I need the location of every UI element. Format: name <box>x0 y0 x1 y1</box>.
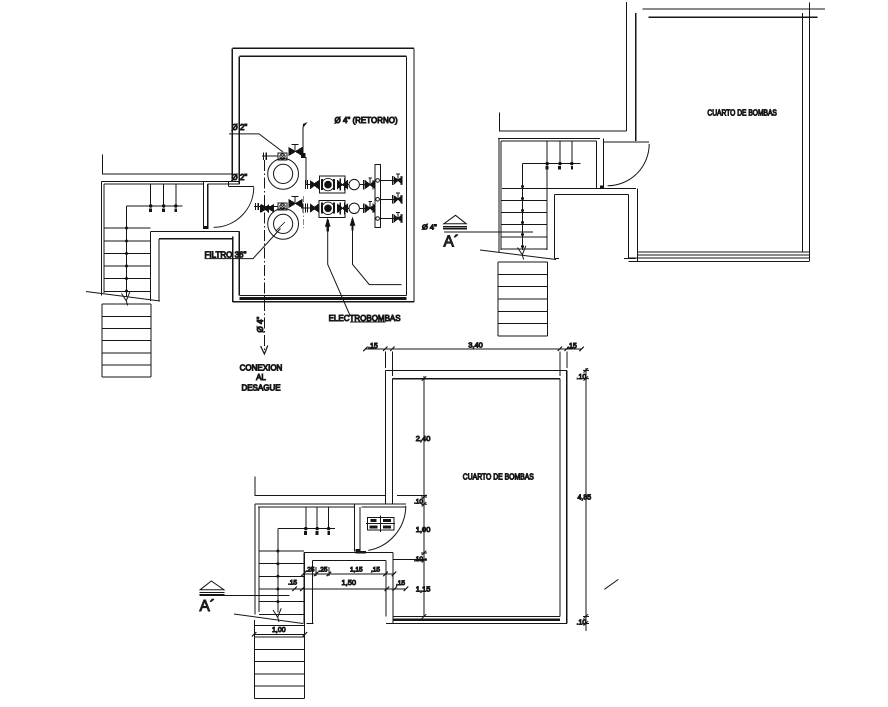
room bottom band B <box>629 252 809 261</box>
svg-text:.25: .25 <box>306 567 315 574</box>
stair right edge B <box>546 164 548 250</box>
left dim line <box>423 376 425 617</box>
break line C <box>234 614 303 624</box>
void box outer right <box>392 552 394 623</box>
stair void left stub <box>554 258 559 260</box>
baluster tiny labels B <box>545 166 573 170</box>
svg-text:Ø 4": Ø 4" <box>422 223 437 232</box>
walk dots C <box>276 550 279 604</box>
stair top wall inner right <box>208 183 240 185</box>
filter F1 left stub <box>262 155 278 157</box>
door B swing arc <box>608 144 650 186</box>
wall top outer <box>232 47 414 49</box>
baluster dots line <box>127 205 183 207</box>
pump PU1 box <box>319 176 345 193</box>
svg-text:1,15: 1,15 <box>416 585 431 594</box>
branch 1 valve <box>393 176 402 185</box>
filter F2 top box <box>278 203 287 210</box>
door A jamb foot <box>203 226 207 229</box>
svg-text:ELECTROBOMBAS: ELECTROBOMBAS <box>329 313 401 323</box>
left dim ticks <box>421 376 427 618</box>
right dim line <box>585 368 587 631</box>
svg-text:.10: .10 <box>577 619 587 626</box>
void box inner right <box>385 561 387 617</box>
svg-text:.15: .15 <box>567 343 577 350</box>
filter F1 inner <box>274 164 293 183</box>
P2 suction valves <box>303 203 319 212</box>
electro underline <box>350 321 386 323</box>
door A swing arc <box>214 187 254 227</box>
room top outer <box>385 369 566 371</box>
drain valve on stub <box>262 205 274 213</box>
svg-text:Ø 2": Ø 2" <box>232 173 248 182</box>
balusters B <box>547 141 572 164</box>
check valve CV1 <box>349 179 359 189</box>
svg-text:,15: ,15 <box>396 580 405 587</box>
stair treads upper flight <box>104 228 151 292</box>
dims row1 line <box>303 573 394 575</box>
door B leaf <box>603 141 649 143</box>
riser flag <box>303 123 306 127</box>
riser elbow blob <box>301 153 306 158</box>
drain arrowhead <box>261 346 268 355</box>
room east outer <box>566 370 568 623</box>
stair left wall inner <box>103 184 105 293</box>
wall west inner lower <box>238 232 240 296</box>
svg-text:CONEXION: CONEXION <box>240 363 283 372</box>
door B jamb right <box>602 139 604 189</box>
filter F2 top valve cluster <box>289 200 302 208</box>
stair void right stub <box>624 257 636 259</box>
svg-text:1,50: 1,50 <box>342 578 357 587</box>
stair top wall outer <box>102 181 240 183</box>
corridor wall tick <box>499 113 626 131</box>
pump PU2 out pipe <box>345 207 348 209</box>
CV1 to header pipe <box>360 184 375 186</box>
lower flight C treads <box>254 626 304 699</box>
svg-text:AL: AL <box>256 373 266 382</box>
stair void left wall <box>553 194 555 258</box>
section marker triangle <box>444 215 467 224</box>
stair left wall C outer <box>254 504 256 614</box>
baluster lines <box>151 184 176 206</box>
lower flight B right <box>547 262 549 336</box>
stair left wall outer <box>101 182 103 296</box>
left dim ext lines <box>393 496 427 560</box>
P1 suction valves <box>305 180 318 189</box>
dia2 top leader <box>229 134 283 152</box>
stair left wall outer <box>498 139 500 252</box>
drain valve mid <box>260 205 268 212</box>
header branch 2 <box>381 198 403 200</box>
stair top wall inner left <box>104 183 204 185</box>
riser pipe <box>302 127 304 158</box>
stair mid wall inner <box>158 239 160 301</box>
svg-text:.15: .15 <box>288 580 297 587</box>
wall right inner <box>406 56 408 295</box>
svg-text:.10: .10 <box>414 556 423 563</box>
svg-text:,15: ,15 <box>371 567 380 574</box>
walk line C <box>277 529 279 613</box>
svg-text:A´: A´ <box>200 598 216 615</box>
pump PU2 motor <box>322 202 348 214</box>
wall top inner <box>239 55 406 57</box>
filter F2 box circle <box>280 204 285 209</box>
P2 discharge valve <box>363 204 374 213</box>
svg-text:1,00: 1,00 <box>416 525 431 534</box>
row2 ticks <box>292 587 408 592</box>
top dim ticks <box>363 347 584 352</box>
F2 diag mark <box>276 222 285 231</box>
vestibule top wall lower right / leaf <box>362 506 406 508</box>
svg-text:3,40: 3,40 <box>468 340 483 349</box>
wall west below door inner <box>628 194 630 257</box>
door A leaf <box>228 185 254 187</box>
room bottom inner <box>393 616 560 618</box>
drain line dash-dot <box>263 160 265 353</box>
wall east inner <box>802 13 804 252</box>
header branch 3 <box>381 218 403 220</box>
top dim ext lines <box>385 352 566 377</box>
baluster dots C <box>304 527 330 530</box>
svg-text:CUARTO DE BOMBAS: CUARTO DE BOMBAS <box>707 109 777 118</box>
baluster tiny labels C <box>304 531 330 535</box>
balusters C <box>306 507 329 528</box>
wall bottom outer <box>232 301 414 303</box>
wall bottom thick band <box>239 297 406 300</box>
walk dots B <box>521 185 524 248</box>
row1 ticks <box>301 572 396 577</box>
stair left wall C inner <box>258 507 260 612</box>
A marker C underlines <box>200 592 225 594</box>
door A jamb outer <box>203 182 205 229</box>
room top inner <box>393 378 561 380</box>
lower flight right edge <box>150 304 152 377</box>
stray diagonal <box>604 579 618 589</box>
svg-text:CUARTO DE BOMBAS: CUARTO DE BOMBAS <box>463 472 534 481</box>
stair void top wall <box>554 193 628 195</box>
void box outer top <box>304 551 393 553</box>
wall west inner upper <box>238 56 240 183</box>
walk line B <box>522 164 524 250</box>
suction pipe P2 <box>301 207 319 209</box>
room west outer upper <box>384 370 386 504</box>
svg-text:1,00: 1,00 <box>272 627 286 634</box>
section marker underlines <box>443 227 467 229</box>
svg-text:4,85: 4,85 <box>578 495 592 502</box>
baluster dots <box>149 204 178 207</box>
svg-text:Ø 4": Ø 4" <box>256 317 265 333</box>
door C foot <box>356 549 360 552</box>
door A jamb inner <box>207 184 209 229</box>
baluster dots line B <box>523 163 581 165</box>
dims row2 line <box>287 588 406 590</box>
return header <box>375 164 380 227</box>
electro leader 1 <box>328 230 350 315</box>
walk arrowhead B <box>518 246 526 260</box>
svg-text:.10: .10 <box>414 498 423 505</box>
vestibule south wall outer <box>151 231 240 233</box>
pump PU1 motor <box>322 178 348 190</box>
door C jamb right <box>359 507 361 551</box>
door B jamb left <box>595 141 597 188</box>
centerline below junction <box>302 196 304 228</box>
top dim line <box>365 348 581 350</box>
check valve CV2 <box>349 203 359 213</box>
door C swing arc <box>368 506 406 551</box>
header branch 1 <box>381 179 403 181</box>
A prime marker C triangle <box>200 581 224 590</box>
right dim ticks <box>583 368 589 626</box>
corridor wall tick <box>102 154 232 174</box>
lower flight C right <box>303 624 305 698</box>
treads B upper <box>501 200 547 249</box>
lower flight C left <box>253 620 255 699</box>
wall top inner <box>649 16 818 18</box>
vestibule south line <box>502 187 636 189</box>
treads C upper <box>259 551 304 614</box>
pipe line P1 <box>306 184 320 186</box>
svg-text:.25: .25 <box>319 567 328 574</box>
pump PU1 out pipe <box>345 184 348 186</box>
lower flight treads <box>102 304 151 377</box>
filter F1 top box <box>278 153 287 160</box>
wall west outer upper <box>626 2 628 131</box>
wall west outer upper <box>231 48 233 181</box>
break line B <box>480 250 556 260</box>
filter F1 box circle <box>280 154 285 159</box>
pump PU2 box <box>319 201 345 218</box>
filter F1 stub flange <box>263 153 266 160</box>
stair top wall outer <box>498 138 600 140</box>
baluster dots B <box>546 162 574 165</box>
vestibule top wall lower left <box>258 506 354 508</box>
wall right outer <box>413 48 415 301</box>
filter F1 top valve cluster <box>289 148 302 156</box>
baluster tiny labels <box>149 208 177 212</box>
corridor wall tick C <box>255 477 386 496</box>
wall top outer <box>643 8 826 10</box>
section line C <box>200 595 290 597</box>
room bottom thick <box>393 618 560 621</box>
door C jamb left <box>353 504 355 551</box>
void box inner top <box>313 560 386 562</box>
filtro underline + leader <box>205 229 281 259</box>
void box bottom stub <box>307 622 314 624</box>
room bottom outer <box>386 623 567 625</box>
walk line dots <box>125 227 128 293</box>
svg-text:A´: A´ <box>444 234 460 251</box>
svg-text:FILTRO 36": FILTRO 36" <box>205 250 247 259</box>
wall west inner upper <box>635 13 637 141</box>
svg-text:2,40: 2,40 <box>416 434 431 443</box>
lower flight left edge <box>101 304 103 377</box>
svg-text:Ø 2": Ø 2" <box>232 123 248 132</box>
vestibule top wall upper <box>255 503 406 505</box>
bottom dim 1,00 <box>254 633 305 635</box>
lower flight B left <box>497 262 499 336</box>
door tag table <box>368 518 395 530</box>
baluster dots line C <box>278 528 335 530</box>
door A leaf start tick <box>227 182 229 187</box>
suction drop pipe P1 <box>303 158 306 185</box>
filter F2 inner <box>274 214 293 233</box>
threshold dark <box>356 551 366 553</box>
void box inner left <box>312 561 314 624</box>
wall west below door outer <box>637 188 639 261</box>
filter F1 body <box>268 159 299 190</box>
door B jamb foot <box>600 185 604 188</box>
svg-text:Ø 4" (RETORNO): Ø 4" (RETORNO) <box>335 116 398 125</box>
svg-text:.10: .10 <box>577 374 587 381</box>
filter F2 left stub <box>254 205 278 207</box>
stair walk line <box>126 206 128 297</box>
branch 3 valve <box>393 214 402 223</box>
svg-text:.15: .15 <box>368 343 378 350</box>
section line A-A <box>444 231 533 233</box>
vestibule south wall inner <box>159 238 233 240</box>
room east inner <box>559 379 561 617</box>
walk arrowhead C <box>273 608 281 622</box>
stair break line <box>86 292 160 302</box>
svg-text:1,15: 1,15 <box>350 567 363 574</box>
stair mid wall outer <box>150 232 152 301</box>
wall west outer lower <box>232 237 234 302</box>
room west inner upper <box>392 379 394 505</box>
wall east outer <box>809 3 811 262</box>
filter F2 body <box>268 209 299 240</box>
lower flight B treads <box>498 262 548 336</box>
P1 discharge valve <box>363 180 374 189</box>
stair left wall inner <box>500 141 502 250</box>
filter F2 stub flange <box>255 203 258 210</box>
stair top wall inner <box>501 140 596 142</box>
svg-text:DESAGUE: DESAGUE <box>241 383 280 392</box>
CV2 to header pipe <box>360 207 375 209</box>
row1 ext <box>316 567 329 576</box>
electro leader 2 <box>353 229 402 285</box>
void box outer left <box>303 552 305 624</box>
walk line arrowhead <box>122 292 130 306</box>
branch 2 valve <box>393 195 402 204</box>
wall bottom inner <box>239 294 406 296</box>
